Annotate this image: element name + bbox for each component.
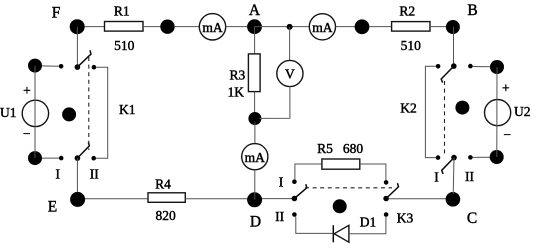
svg-text:820: 820 bbox=[155, 208, 176, 223]
svg-text:−: − bbox=[23, 126, 31, 141]
svg-text:+: + bbox=[23, 83, 31, 98]
wire U1 through line bbox=[34, 66, 36, 159]
svg-text:A: A bbox=[249, 2, 261, 19]
wire F down to switch K1 bbox=[76, 27, 78, 65]
resistor R2 bbox=[392, 22, 430, 32]
ammeter mA (middle) bbox=[242, 144, 268, 170]
svg-text:510: 510 bbox=[401, 38, 422, 53]
switch K2 lower pole pivot bbox=[451, 155, 457, 161]
wire R3 to junction bbox=[254, 92, 256, 114]
svg-text:R3: R3 bbox=[230, 67, 246, 82]
contact I lower bbox=[59, 156, 64, 161]
wire ammeter to node D bbox=[254, 170, 256, 200]
wire R4 to node D bbox=[185, 198, 248, 200]
switch K3 left lever bbox=[294, 184, 306, 198]
contact I (K3 left) bbox=[292, 179, 297, 184]
coupling dashed link K2 bbox=[444, 81, 446, 156]
indicator dot K2 bbox=[455, 101, 469, 115]
node C bbox=[446, 192, 461, 207]
ammeter mA (top left) bbox=[199, 14, 225, 40]
node D bbox=[247, 192, 262, 207]
svg-text:mA: mA bbox=[245, 150, 266, 165]
svg-text:E: E bbox=[48, 199, 57, 216]
coupling dashed link K1 bbox=[88, 57, 90, 150]
svg-text:K1: K1 bbox=[119, 102, 136, 117]
switch K1 upper pole pivot bbox=[75, 64, 81, 70]
voltmeter V bbox=[277, 60, 303, 86]
svg-text:1K: 1K bbox=[228, 85, 245, 100]
switch K1 lower lever bbox=[77, 142, 89, 158]
wire K3 right pivot to node C bbox=[389, 198, 448, 200]
svg-text:510: 510 bbox=[114, 38, 135, 53]
svg-text:D1: D1 bbox=[360, 215, 377, 230]
svg-text:II: II bbox=[465, 169, 474, 184]
wire node A to voltmeter tap bbox=[255, 26, 310, 28]
voltage source U1 bbox=[22, 100, 48, 126]
switch K2 upper pole pivot bbox=[451, 63, 457, 69]
svg-text:B: B bbox=[467, 2, 477, 19]
wire contact II to U2 plus bbox=[473, 66, 491, 68]
wire R1 to junction bbox=[143, 26, 167, 28]
switch K3 left pivot bbox=[292, 196, 298, 202]
svg-text:mA: mA bbox=[202, 20, 223, 35]
contact II (K3 left) bbox=[292, 212, 297, 217]
svg-text:680: 680 bbox=[343, 141, 364, 156]
svg-text:I: I bbox=[434, 170, 439, 185]
svg-text:+: + bbox=[502, 81, 510, 96]
svg-text:R2: R2 bbox=[399, 4, 415, 19]
terminal U1 minus bbox=[28, 151, 42, 165]
svg-text:mA: mA bbox=[312, 20, 333, 35]
contact I (K3 right) bbox=[384, 180, 389, 185]
switch K1 lower pole pivot bbox=[75, 155, 81, 161]
node F bbox=[70, 19, 85, 34]
switch K1 upper lever bbox=[77, 50, 91, 67]
svg-text:K3: K3 bbox=[397, 210, 414, 225]
wire R2 to node B bbox=[430, 26, 447, 28]
contact II upper (K2) bbox=[468, 64, 473, 69]
terminal U2 minus bbox=[490, 150, 504, 164]
svg-text:R5: R5 bbox=[317, 141, 333, 156]
contact II lower bbox=[91, 156, 96, 161]
resistor R1 bbox=[105, 22, 144, 32]
wire U1 plus to contact I bbox=[35, 65, 59, 67]
switch K3 right pivot bbox=[383, 196, 389, 202]
svg-text:I: I bbox=[279, 174, 284, 189]
wire E to R4 bbox=[85, 198, 148, 200]
wire R5 branch left bbox=[295, 164, 322, 180]
svg-text:K2: K2 bbox=[400, 100, 417, 115]
switch K2 upper lever bbox=[441, 66, 454, 83]
svg-text:F: F bbox=[52, 4, 61, 21]
wire contact II link (right and down) bbox=[96, 67, 108, 158]
wire node A down to R3 bbox=[254, 27, 256, 54]
resistor R5 bbox=[322, 159, 360, 169]
contact II (K3 right) bbox=[384, 212, 389, 217]
wire K1 lower pivot down to node E bbox=[76, 158, 78, 199]
contact I upper bbox=[59, 64, 64, 69]
junction dot bbox=[355, 19, 370, 34]
wire voltmeter tap down bbox=[289, 27, 291, 61]
wire contact I link (left and down) bbox=[425, 66, 436, 157]
wire mA to node A bbox=[226, 26, 248, 28]
switch K2 lower lever bbox=[442, 158, 454, 174]
wire B down to switch K2 bbox=[453, 27, 455, 64]
wire mA to junction bbox=[336, 26, 356, 28]
node E bbox=[70, 192, 85, 207]
switch K3 right lever bbox=[386, 183, 398, 198]
indicator dot K3 bbox=[333, 199, 347, 213]
wire diode branch left bbox=[296, 217, 333, 234]
resistor R4 bbox=[148, 193, 185, 203]
junction node (voltmeter tap) bbox=[287, 24, 293, 30]
contact I upper (K2) bbox=[436, 64, 441, 69]
wire U2 through line bbox=[496, 67, 498, 157]
contact II upper bbox=[92, 65, 97, 70]
svg-text:D: D bbox=[250, 214, 261, 231]
indicator dot K1 bbox=[62, 107, 76, 121]
wire D to switch K3 bbox=[262, 198, 292, 200]
coupling dashed link K3 bbox=[305, 187, 392, 189]
contact II lower (K2) bbox=[468, 155, 473, 160]
voltage source U2 bbox=[485, 100, 511, 126]
node B bbox=[446, 20, 460, 34]
diode D1 bbox=[332, 225, 334, 242]
wire voltmeter to junction bbox=[259, 87, 290, 119]
svg-text:−: − bbox=[503, 127, 511, 142]
wire junction to R2 bbox=[369, 26, 392, 28]
resistor R3 bbox=[248, 54, 260, 92]
svg-text:R4: R4 bbox=[155, 177, 171, 192]
terminal U2 plus bbox=[490, 60, 504, 74]
svg-text:II: II bbox=[275, 209, 284, 224]
node A bbox=[247, 19, 262, 34]
svg-text:U1: U1 bbox=[0, 105, 17, 120]
svg-text:V: V bbox=[285, 67, 295, 82]
wire diode branch right bbox=[349, 217, 386, 234]
wire junction to mA meter bbox=[174, 26, 200, 28]
svg-text:C: C bbox=[467, 210, 477, 227]
svg-text:II: II bbox=[90, 167, 99, 182]
wire junction to ammeter bbox=[254, 122, 256, 144]
terminal U1 plus bbox=[28, 59, 42, 73]
wire R5 branch right bbox=[360, 164, 386, 180]
junction dot bbox=[160, 20, 174, 34]
junction node below R3 bbox=[248, 112, 261, 125]
ammeter mA (top middle) bbox=[309, 14, 335, 40]
svg-text:R1: R1 bbox=[114, 3, 130, 18]
svg-text:I: I bbox=[55, 167, 60, 182]
wire F to R1 bbox=[77, 26, 105, 28]
wire K2 lower pivot down to node C bbox=[452, 158, 455, 194]
svg-text:U2: U2 bbox=[514, 104, 531, 119]
contact I lower (K2) bbox=[436, 155, 441, 160]
wire U1 minus to contact I lower bbox=[35, 157, 59, 159]
wire contact II to U2 minus bbox=[473, 156, 491, 158]
